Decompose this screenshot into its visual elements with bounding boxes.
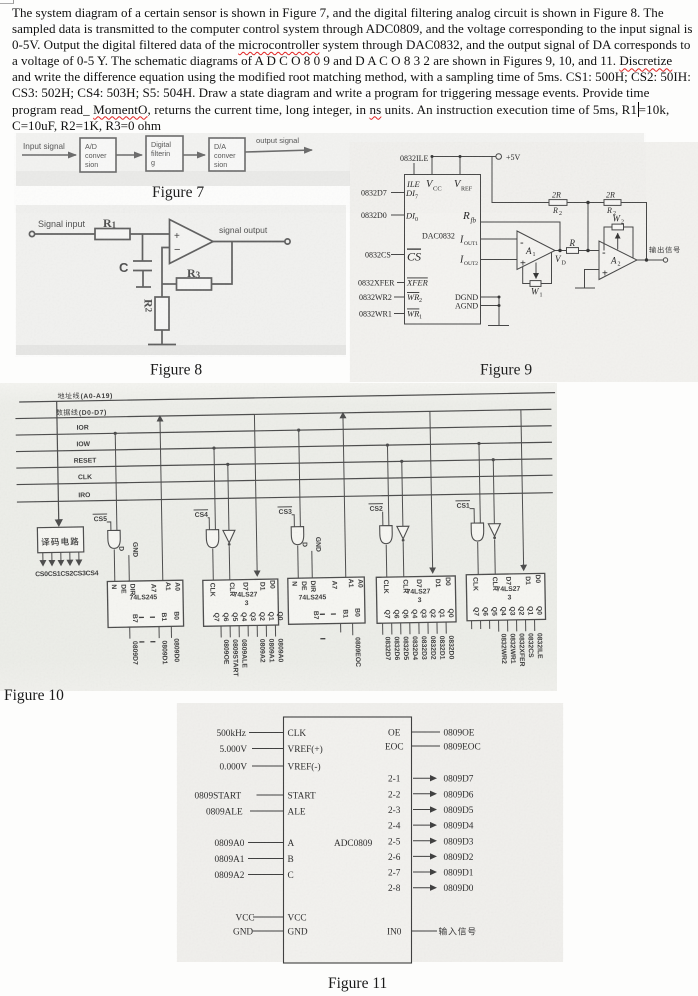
wires U2 output stubs	[220, 626, 222, 637]
chip box CS4	[203, 579, 279, 626]
wire Vref pin	[459, 157, 461, 175]
svg-text:0809D3: 0809D3	[444, 837, 474, 847]
wire address bus line A0-A19	[19, 393, 555, 402]
pin stub 0832CS	[391, 254, 405, 256]
svg-text:VCC: VCC	[288, 914, 307, 924]
wire 5.000V to pin VREF(+)	[252, 748, 284, 750]
wire A1 out to R	[555, 250, 567, 252]
wire CS2 gate output	[385, 545, 388, 577]
svg-text:0809OE: 0809OE	[444, 729, 475, 739]
pin stub 0832D7	[391, 192, 405, 194]
wire CLK line	[17, 475, 553, 484]
svg-text:OE: OE	[388, 729, 401, 739]
wire capacitor drop	[142, 234, 144, 261]
wire R1 to opamp	[130, 233, 170, 235]
label output signal chinese	[649, 246, 680, 253]
or-gate CS4	[206, 530, 219, 548]
svg-text:A/D: A/D	[85, 142, 97, 151]
wire data bus to CS3 chip	[343, 415, 346, 577]
wire GND stub U3	[311, 551, 313, 578]
svg-text:CS5: CS5	[94, 516, 108, 523]
svg-text:5.000V: 5.000V	[220, 745, 248, 755]
svg-text:conver: conver	[85, 151, 107, 160]
svg-text:filterin: filterin	[151, 149, 170, 158]
svg-text:0809D1: 0809D1	[160, 640, 167, 664]
chip box CS3	[288, 577, 365, 624]
svg-text:D7: D7	[241, 582, 248, 591]
wire 2-1 arrow	[413, 777, 435, 779]
figure 7 block diagram	[0, 0, 698, 220]
svg-text:2R: 2R	[552, 191, 561, 200]
wire 2-6 arrow	[413, 855, 435, 857]
svg-text:0809D1: 0809D1	[444, 869, 474, 879]
wire CS5 to gate	[107, 522, 111, 531]
wire Vcc pin	[431, 157, 433, 175]
W2 wiper arrow	[617, 233, 619, 249]
svg-text:Q7: Q7	[212, 613, 219, 622]
svg-text:0809D6: 0809D6	[444, 790, 474, 800]
svg-text:Input signal: Input signal	[23, 142, 65, 151]
svg-text:0809A2: 0809A2	[215, 871, 245, 881]
chip box CS1	[466, 573, 545, 620]
wire R3 to output	[212, 242, 233, 285]
svg-text:IOW: IOW	[76, 441, 90, 448]
svg-text:B1: B1	[341, 609, 348, 618]
svg-text:+: +	[602, 269, 608, 280]
ground	[148, 344, 176, 346]
wire EOC to 0809EOC	[412, 745, 441, 747]
wire input	[35, 233, 95, 235]
svg-text:0809A0: 0809A0	[276, 638, 283, 662]
svg-text:Q2: Q2	[517, 606, 524, 615]
wires U3 output stubs	[340, 623, 342, 632]
chip DAC0832 box	[405, 175, 481, 325]
wire data bus to CS1 chip	[521, 410, 524, 568]
wire 2-4 arrow	[413, 824, 435, 826]
svg-text:0832D0: 0832D0	[361, 211, 387, 220]
svg-text:CS1: CS1	[456, 503, 470, 510]
output terminal	[663, 258, 667, 262]
wire 2-8 arrow	[413, 887, 435, 889]
svg-text:START: START	[288, 792, 316, 802]
wire IN0 input	[412, 930, 438, 932]
svg-text:D1: D1	[434, 579, 441, 588]
potentiometer W1 right lead	[541, 253, 552, 284]
svg-text:A7: A7	[330, 580, 337, 589]
wires U4 output stubs	[382, 623, 384, 634]
chip ADC0809 box	[284, 717, 412, 963]
wire address to decoder	[57, 401, 59, 522]
svg-text:output signal: output signal	[256, 136, 299, 145]
svg-text:Q5: Q5	[490, 607, 497, 616]
svg-text:(D0-D7): (D0-D7)	[79, 409, 107, 416]
wire 500kHz to pin CLK	[249, 732, 284, 734]
label data bus	[56, 409, 63, 416]
svg-text:0809D0: 0809D0	[444, 884, 474, 894]
ground chip	[488, 325, 509, 327]
wire ILE pin	[413, 163, 415, 175]
svg-text:A0: A0	[356, 579, 363, 588]
wire data bus to CS5 chip	[160, 419, 163, 581]
svg-text:0809D0: 0809D0	[172, 638, 179, 662]
svg-text:0809D5: 0809D5	[444, 806, 474, 816]
wire between 2R	[567, 202, 604, 204]
svg-text:REF: REF	[461, 187, 473, 193]
svg-text:conver: conver	[214, 151, 236, 160]
inverter CS4	[223, 530, 235, 543]
svg-text:EOC: EOC	[385, 743, 404, 753]
wire 2-5 arrow	[413, 840, 435, 842]
wire 2-2 arrow	[413, 793, 435, 795]
svg-text:2-6: 2-6	[388, 853, 401, 863]
svg-text:0809START: 0809START	[195, 792, 242, 802]
wire RESET to CS2 inverter	[402, 461, 403, 526]
W1 wiper arrow	[535, 263, 537, 279]
wire 0.000V to pin VREF(-)	[252, 765, 284, 767]
svg-text:Q3: Q3	[249, 612, 256, 621]
wire CS1 gate output	[477, 542, 480, 574]
svg-text:DAC0832: DAC0832	[422, 232, 455, 241]
svg-text:A0: A0	[173, 582, 180, 591]
svg-text:CLK: CLK	[208, 583, 215, 597]
capacitor lower stub	[142, 271, 144, 288]
svg-text:3: 3	[245, 600, 249, 607]
svg-text:Q4: Q4	[240, 612, 247, 621]
resistor R2	[155, 297, 169, 330]
wire CS4 inverter output	[228, 546, 231, 580]
svg-text:0832D0: 0832D0	[447, 635, 454, 659]
svg-text:−: −	[174, 244, 180, 256]
svg-text:ADC0809: ADC0809	[334, 839, 373, 849]
svg-text:0809D7: 0809D7	[444, 775, 474, 785]
scan background fig7	[16, 133, 644, 186]
svg-text:Q1: Q1	[526, 606, 533, 615]
svg-text:D0: D0	[534, 574, 541, 583]
svg-text:Q6: Q6	[481, 607, 488, 616]
svg-text:D0: D0	[268, 580, 275, 589]
potentiometer W2 right lead	[624, 227, 634, 258]
wire CS1 to gate	[470, 509, 475, 524]
svg-text:0809D7: 0809D7	[131, 641, 138, 665]
svg-text:0809EOC: 0809EOC	[354, 637, 362, 667]
svg-text:1: 1	[533, 252, 536, 258]
resistor 2R second	[604, 200, 621, 206]
svg-text:0809START: 0809START	[231, 639, 239, 677]
svg-text:signal output: signal output	[219, 225, 268, 235]
svg-text:D7: D7	[504, 576, 511, 585]
op-amp A1	[517, 231, 555, 270]
svg-text:R: R	[569, 238, 576, 248]
svg-text:0832WR2: 0832WR2	[359, 293, 392, 302]
svg-text:AGND: AGND	[455, 302, 478, 311]
svg-text:D: D	[562, 261, 567, 267]
svg-text:N: N	[290, 581, 297, 586]
resistor R1	[95, 229, 130, 240]
svg-text:CS4: CS4	[195, 512, 209, 519]
dashes below U3	[320, 638, 325, 640]
wires U5 output stubs	[471, 621, 473, 629]
dashes below U1	[139, 641, 155, 643]
svg-text:B1: B1	[160, 612, 167, 621]
inverter CS2	[397, 526, 409, 539]
svg-text:Q1: Q1	[267, 612, 274, 621]
svg-text:0832D3: 0832D3	[420, 636, 427, 660]
svg-text:7: 7	[415, 195, 418, 201]
wire DGND	[481, 296, 500, 298]
svg-text:CS0CS1CS2CS3CS4: CS0CS1CS2CS3CS4	[35, 570, 99, 578]
chip U3 inner dashes	[320, 613, 336, 615]
pin stub 0832XFER	[397, 282, 405, 284]
svg-text:Q5: Q5	[401, 609, 408, 618]
svg-text:74LS27: 74LS27	[406, 588, 430, 595]
wire RESET line	[16, 459, 552, 468]
svg-text:OUT2: OUT2	[464, 261, 478, 267]
wire IOW to CS1 gate	[479, 443, 480, 522]
svg-text:Q2: Q2	[429, 609, 436, 618]
texts	[358, 153, 624, 321]
wire 2R junction drop	[587, 203, 589, 251]
wire A2 output	[637, 259, 663, 261]
svg-text:0809ALE: 0809ALE	[206, 808, 243, 818]
svg-text:74LS245: 74LS245	[299, 594, 327, 601]
corner mark	[0, 0, 14, 4]
svg-text:Q5: Q5	[231, 612, 238, 621]
ground A2	[575, 287, 595, 289]
or-gate CS5	[108, 530, 121, 548]
wire RESET to CS1 inverter	[493, 460, 494, 524]
wire 0809A0 to pin A	[248, 842, 284, 844]
wire output	[213, 241, 285, 243]
svg-text:GND: GND	[131, 542, 138, 557]
svg-text:IN0: IN0	[387, 928, 402, 938]
svg-text:0832D7: 0832D7	[361, 189, 387, 198]
wires U1 output stubs	[129, 627, 131, 638]
wire IOW line	[16, 442, 552, 451]
svg-text:Q2: Q2	[258, 612, 265, 621]
svg-text:DE: DE	[119, 584, 126, 594]
svg-text:A1: A1	[164, 582, 171, 591]
wire CS1 inverter output	[494, 540, 497, 575]
svg-text:IRO: IRO	[78, 492, 90, 499]
svg-text:2-5: 2-5	[388, 837, 401, 847]
svg-text:3: 3	[418, 597, 422, 604]
wire IOR to CS3 gate	[299, 430, 301, 526]
op-amp U1	[170, 220, 214, 264]
svg-text:ALE: ALE	[288, 808, 306, 818]
svg-text:0: 0	[415, 217, 418, 223]
svg-text:CLK: CLK	[471, 577, 478, 591]
op-amp A2	[599, 241, 637, 280]
resistor R3	[177, 278, 212, 290]
svg-text:0809ALE: 0809ALE	[240, 639, 248, 668]
wire CS4 to gate	[208, 518, 210, 530]
svg-text:CS3: CS3	[279, 509, 293, 516]
chip U1 inner dashes	[139, 616, 155, 618]
svg-text:2-7: 2-7	[388, 869, 401, 879]
svg-text:500kHz: 500kHz	[217, 729, 246, 739]
svg-text:A: A	[288, 839, 295, 849]
svg-text:RESET: RESET	[74, 457, 98, 464]
svg-text:A: A	[610, 256, 617, 266]
svg-text:2: 2	[419, 298, 422, 304]
or-gate CS2	[380, 526, 393, 544]
svg-text:74LS27: 74LS27	[496, 586, 520, 593]
svg-text:B7: B7	[312, 611, 319, 620]
figure 11 ADC0809 pin diagram	[170, 698, 570, 996]
svg-text:2: 2	[618, 262, 621, 268]
svg-text:0809D4: 0809D4	[444, 822, 474, 832]
wire R2 bottom	[161, 330, 163, 344]
svg-text:Figure 7: Figure 7	[152, 184, 204, 201]
svg-text:0832D7: 0832D7	[384, 637, 391, 661]
svg-text:A1: A1	[347, 579, 354, 588]
wire AGND	[481, 305, 500, 307]
svg-text:DE: DE	[300, 581, 307, 591]
wire IOR to CS5 gate	[115, 433, 117, 530]
svg-text:1: 1	[540, 293, 543, 299]
svg-text:VCC: VCC	[236, 914, 255, 924]
wire arrow 1-2	[116, 154, 142, 156]
paragraph text	[12, 5, 698, 134]
wire arrow 2-3	[183, 154, 205, 156]
svg-text:D0: D0	[444, 577, 451, 586]
svg-text:3: 3	[508, 594, 512, 601]
svg-text:CLK: CLK	[382, 580, 389, 594]
svg-text:0832ILE: 0832ILE	[400, 154, 429, 163]
svg-text:2-2: 2-2	[388, 790, 401, 800]
figure 8 op-amp low-pass circuit	[0, 200, 350, 385]
svg-text:Q4: Q4	[499, 607, 506, 616]
svg-text:0832WR2: 0832WR2	[499, 634, 507, 665]
svg-text:+: +	[174, 231, 180, 242]
svg-text:0832CS: 0832CS	[526, 633, 533, 658]
svg-text:OUT1: OUT1	[464, 241, 478, 247]
svg-text:(A0-A19): (A0-A19)	[81, 393, 113, 401]
svg-text:CS2: CS2	[370, 506, 384, 513]
svg-text:0832D5: 0832D5	[402, 636, 409, 660]
svg-text:0832D6: 0832D6	[393, 636, 400, 660]
svg-text:R2: R2	[142, 299, 156, 313]
svg-text:2: 2	[621, 220, 624, 226]
svg-text:Q7: Q7	[383, 610, 390, 619]
decoder box	[37, 527, 83, 553]
svg-text:74LS27: 74LS27	[234, 591, 258, 598]
svg-text:D1: D1	[524, 576, 531, 585]
input terminal	[29, 231, 34, 236]
or-gate CS1	[471, 523, 484, 541]
svg-text:Figure 9: Figure 9	[480, 362, 532, 379]
figure 9 DAC0832 circuit	[348, 140, 698, 385]
wire 0809START to pin START	[257, 794, 284, 796]
svg-text:Q0: Q0	[276, 611, 283, 620]
wires decoder outputs CS0-CS4	[42, 553, 44, 563]
wire +5V drop to 2R rail	[492, 157, 549, 203]
svg-text:g: g	[151, 158, 155, 167]
svg-text:Q3: Q3	[508, 606, 515, 615]
svg-text:0832WR1: 0832WR1	[508, 633, 516, 664]
svg-text:XFER: XFER	[406, 278, 429, 288]
wire R to A2	[579, 250, 600, 252]
wire OE to 0809OE	[412, 731, 441, 733]
svg-text:B0: B0	[353, 608, 360, 617]
label decoder 译码电路	[41, 537, 78, 546]
svg-text:D: D	[301, 542, 308, 547]
label address bus	[58, 393, 65, 399]
resistor R	[567, 248, 579, 254]
output terminal	[285, 239, 290, 244]
box D/A conversion	[209, 138, 245, 171]
svg-text:R: R	[552, 206, 558, 215]
svg-text:R: R	[606, 206, 612, 215]
svg-text:DIR: DIR	[309, 580, 316, 592]
wire IOR line	[16, 426, 552, 435]
svg-text:-: -	[520, 237, 524, 249]
svg-text:0809A1: 0809A1	[215, 855, 245, 865]
junction dots	[431, 155, 649, 307]
svg-text:2-8: 2-8	[388, 884, 401, 894]
svg-text:Digital: Digital	[151, 140, 171, 149]
wire CS5 gate output	[113, 549, 116, 581]
chip box CS2	[376, 576, 456, 623]
svg-text:Figure 10: Figure 10	[4, 687, 64, 704]
chip box CS5	[107, 580, 183, 627]
wire Rfb feedback	[481, 222, 561, 251]
svg-text:B: B	[288, 855, 294, 865]
wire Iout1	[481, 238, 518, 240]
svg-text:A: A	[525, 246, 532, 256]
svg-text:GND: GND	[233, 928, 253, 938]
svg-text:D1: D1	[258, 582, 265, 591]
svg-text:GND: GND	[288, 928, 308, 938]
svg-text:B0: B0	[172, 611, 179, 620]
svg-text:Q6: Q6	[392, 609, 399, 618]
svg-text:C: C	[288, 871, 294, 881]
svg-text:0832D1: 0832D1	[438, 636, 445, 660]
svg-text:0809EOC: 0809EOC	[444, 743, 481, 753]
potentiometer W2 box	[612, 224, 624, 230]
svg-text:0832ILE: 0832ILE	[535, 633, 542, 659]
svg-text:2: 2	[559, 211, 562, 217]
svg-text:0809D2: 0809D2	[444, 853, 474, 863]
wire IOW to CS2 gate	[387, 445, 388, 525]
svg-text:Q6: Q6	[222, 612, 229, 621]
wire IRQ line	[17, 493, 553, 502]
wire CS3 gate output	[297, 546, 300, 578]
wire gnd drop	[498, 297, 500, 326]
svg-text:R: R	[462, 210, 470, 222]
box Digital filtering	[146, 136, 183, 171]
svg-text:Figure 11: Figure 11	[328, 975, 387, 992]
svg-text:N: N	[110, 584, 117, 589]
svg-text:CLK: CLK	[288, 729, 307, 739]
svg-text:+5V: +5V	[506, 153, 521, 162]
svg-text:Q7: Q7	[472, 607, 479, 616]
pin stub 0832WR2	[394, 296, 405, 298]
svg-text:74LS245: 74LS245	[130, 594, 158, 601]
svg-text:D7: D7	[415, 579, 422, 588]
wire 2R to output drop	[621, 203, 647, 261]
figure 10 bus interface schematic	[0, 383, 698, 713]
svg-text:A7: A7	[149, 584, 156, 593]
label input signal 输入信号	[439, 927, 447, 935]
svg-text:0832D4: 0832D4	[411, 636, 418, 660]
wire CS2 inverter output	[402, 542, 405, 577]
box A/D conversion	[80, 138, 116, 172]
svg-text:fb: fb	[471, 217, 477, 225]
wire A2 plus to ground	[585, 270, 600, 289]
svg-text:Q1: Q1	[438, 609, 445, 618]
svg-text:2-3: 2-3	[388, 806, 401, 816]
